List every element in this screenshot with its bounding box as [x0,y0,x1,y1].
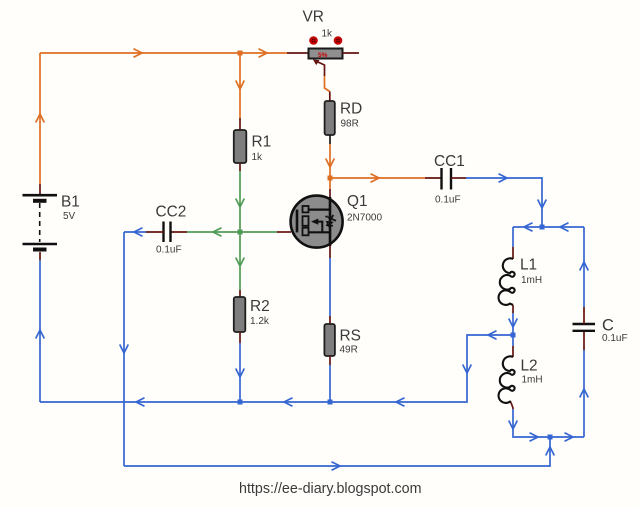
node tap junction L1 L2 [511,333,516,338]
wire RD bottom to drain node [326,135,335,178]
wire Q1 source to RS [329,246,331,324]
node drain junction [328,176,333,181]
svg-text:2N7000: 2N7000 [347,213,382,224]
svg-text:1mH: 1mH [521,275,542,286]
node junction RS to mid rail [328,400,333,405]
svg-text:Q1: Q1 [347,193,368,210]
svg-text:1k: 1k [252,152,264,163]
wire tank top rail [513,223,584,232]
inductor L2 [499,356,515,402]
wire top rail from B1 plus to VR left terminal [40,49,309,58]
wire CC2 left lead [124,228,164,237]
svg-text:1mH: 1mH [522,375,543,386]
node junction CC1 to tank top [540,225,545,230]
svg-text:C: C [602,317,614,335]
wire RS bottom branch [329,356,331,402]
capacitor CC2 [164,222,171,243]
wire mid ground rail [40,331,513,407]
wire C branch [580,331,589,438]
wire B1 negative lead [36,252,45,402]
node junction top rail to R1 branch [238,51,243,56]
wire R2 top branch [236,232,245,297]
potentiometer VR [309,36,343,59]
resistor RD [325,101,335,135]
svg-text:1.2k: 1.2k [250,316,270,327]
svg-text:https://ee-diary.blogspot.com: https://ee-diary.blogspot.com [239,481,422,497]
svg-text:R2: R2 [250,298,270,315]
resistor R2 [234,297,246,332]
inductor L1 [499,258,515,305]
wire L1 bottom to tap [509,305,518,335]
svg-text:R1: R1 [252,134,272,151]
svg-text:L2: L2 [521,358,538,375]
svg-text:5%: 5% [318,52,328,59]
wire VR wiper to RD [313,60,330,102]
wire drain vertical into Q1 [329,178,331,197]
svg-text:5V: 5V [63,211,76,222]
wire L2 bottom to tank bottom rail [509,403,584,442]
node junction R2 to mid rail [238,400,243,405]
wire bottom rail to tank bottom [124,437,554,470]
wire B1 positive lead [36,53,45,194]
svg-text:49R: 49R [340,345,358,356]
svg-text:0.1uF: 0.1uF [435,195,461,206]
node gate junction [238,230,243,235]
svg-text:CC2: CC2 [156,204,187,221]
wire L1 top lead [512,227,514,259]
capacitor CC1 [442,168,452,190]
wire gate rail CC2 to Q1 gate [171,228,292,237]
svg-text:RS: RS [340,328,361,345]
svg-text:B1: B1 [61,194,80,211]
wire C top lead [580,227,589,324]
wire R1 top branch [236,53,245,130]
battery B1 [23,195,58,249]
svg-text:L1: L1 [520,257,537,274]
capacitor C [573,324,596,331]
wire CC1 to tank top [451,174,546,227]
transistor Q1 [291,196,343,248]
wire R2 bottom branch [236,332,245,402]
wire drain node to CC1 [330,174,442,183]
resistor RS [324,324,335,356]
svg-text:RD: RD [340,101,362,118]
svg-text:0.1uF: 0.1uF [156,245,182,256]
wire R1 bottom to gate node [236,163,245,232]
wire VR right terminal stub [343,52,360,54]
resistor R1 [234,130,247,163]
svg-text:CC1: CC1 [434,153,465,170]
wire CC2 branch down left side [120,232,129,466]
svg-text:0.1uF: 0.1uF [602,333,628,344]
wire L2 top lead [512,335,514,357]
svg-text:1k: 1k [322,29,334,40]
svg-text:98R: 98R [341,119,359,130]
svg-text:VR: VR [303,9,324,26]
node junction tank bottom to feedback [548,435,553,440]
